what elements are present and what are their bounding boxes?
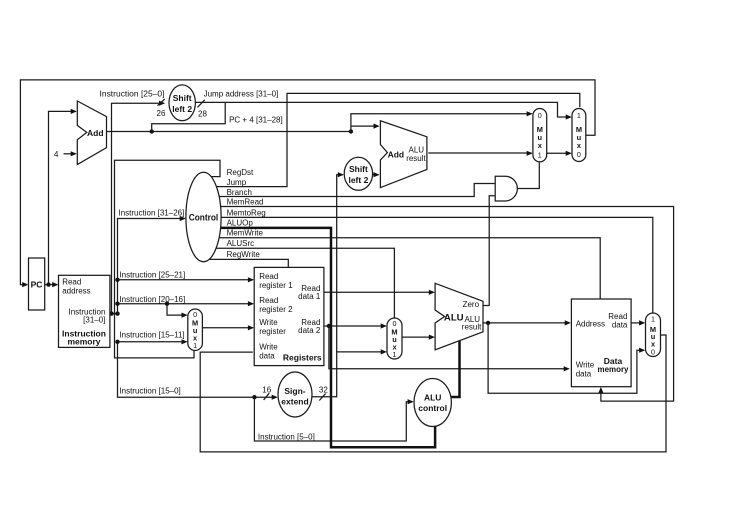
node: ALU result junction — [486, 321, 490, 325]
svg-text:data 1: data 1 — [298, 292, 321, 301]
mux ALUSrc — [387, 318, 402, 359]
svg-text:0: 0 — [393, 319, 397, 328]
wire: jump mux output feedback to PC (top loop) — [20, 80, 595, 285]
svg-text:Instruction [15–0]: Instruction [15–0] — [119, 386, 180, 395]
wire: PC+4 from Add output to branch adder junction — [107, 131, 351, 133]
wire: write-back mux output loop to registers write data — [200, 335, 666, 452]
svg-text:Registers: Registers — [283, 352, 322, 362]
node: Instruction[25-21] tap — [115, 278, 119, 282]
wire: PC+4 up to branch mux 0 input — [351, 114, 532, 132]
svg-text:Instruction [15–11]: Instruction [15–11] — [119, 331, 184, 340]
svg-text:0: 0 — [538, 111, 542, 120]
node: Instruction[20-16] tap — [115, 302, 119, 306]
svg-text:Control: Control — [189, 212, 219, 222]
wire: Instruction[5-0] to ALU control — [254, 397, 412, 441]
wire: Instruction[31-26] riser to Control — [118, 219, 185, 314]
data memory — [571, 299, 631, 387]
wire: Instruction[15-0] to sign extend — [118, 342, 277, 397]
wire: read data 1 to ALU top input — [324, 291, 434, 293]
svg-text:1: 1 — [651, 315, 655, 324]
svg-text:Write: Write — [576, 360, 595, 369]
svg-text:RegWrite: RegWrite — [227, 250, 261, 259]
svg-text:ALUOp: ALUOp — [227, 219, 254, 228]
svg-text:result: result — [462, 323, 482, 332]
svg-text:1: 1 — [538, 150, 542, 159]
wire: PC output to instruction memory read address — [45, 284, 57, 286]
svg-text:[31–0]: [31–0] — [83, 316, 105, 325]
svg-text:Jump: Jump — [227, 178, 247, 187]
svg-text:Shift: Shift — [349, 164, 368, 174]
wire: PC+4 into branch adder top input — [351, 125, 379, 127]
wire: ALU Zero output to AND gate — [483, 196, 495, 306]
svg-text:ALU: ALU — [424, 392, 441, 402]
svg-text:address: address — [62, 287, 90, 296]
svg-text:control: control — [418, 403, 447, 413]
wire: data memory read data to write-back mux 1 input — [631, 322, 644, 324]
svg-text:1: 1 — [393, 350, 397, 359]
svg-text:16: 16 — [262, 386, 271, 395]
wire: ALU source mux output to ALU bottom input — [402, 336, 434, 338]
wire: PC+4 [31-28] riser joining jump address bundle — [152, 102, 226, 131]
svg-text:Instruction [31–26]: Instruction [31–26] — [119, 208, 185, 217]
svg-text:0: 0 — [193, 310, 197, 319]
svg-text:data: data — [259, 352, 275, 361]
svg-text:Read: Read — [259, 296, 278, 305]
svg-text:Jump address [31–0]: Jump address [31–0] — [204, 90, 279, 99]
svg-text:Read: Read — [259, 272, 278, 281]
node: Instruction[15-11] tap — [115, 340, 119, 344]
node: instruction bus junction B — [115, 311, 119, 315]
svg-text:MemtoReg: MemtoReg — [227, 208, 266, 217]
wire: ALU result to data memory address — [483, 322, 570, 324]
wire: Instruction[25-0] riser to shift left 2 — [112, 103, 164, 313]
svg-text:Add: Add — [87, 128, 104, 138]
instruction memory — [59, 275, 110, 347]
svg-text:Read: Read — [62, 277, 81, 286]
svg-text:register 2: register 2 — [259, 305, 293, 314]
svg-text:MemRead: MemRead — [227, 198, 264, 207]
wire: ALU control output to ALU (thick) — [451, 340, 460, 397]
wire: shift left 2 output jump address to jump mux 1 input — [195, 102, 570, 117]
register PC — [29, 258, 45, 310]
svg-text:32: 32 — [319, 386, 328, 395]
wire: RegDst control to RegDst mux select (left loop) — [115, 160, 221, 358]
node: PC+4 junction for jump address — [150, 129, 154, 133]
wire: ALU result bypass to write-back mux 0 input — [488, 323, 644, 393]
svg-text:4: 4 — [54, 150, 59, 159]
svg-text:Instruction [5–0]: Instruction [5–0] — [258, 433, 315, 442]
svg-text:RegDst: RegDst — [227, 168, 254, 177]
svg-text:Write: Write — [259, 343, 278, 352]
control unit oval — [186, 172, 221, 261]
svg-text:Address: Address — [576, 319, 605, 328]
wire: read data 2 to data memory write data — [329, 326, 569, 369]
wire: RegWrite control to registers — [210, 259, 289, 267]
svg-text:result: result — [406, 154, 426, 163]
wire: constant 4 into Add — [64, 153, 76, 155]
svg-text:left 2: left 2 — [172, 104, 192, 114]
mux write-back (MemtoReg) — [646, 313, 661, 357]
svg-text:26: 26 — [157, 109, 166, 118]
wire: ALUSrc control to ALU source mux select — [214, 248, 395, 318]
node: Instruction[15-0] junction for [5-0] — [252, 395, 256, 399]
bit-width slash 32 — [319, 394, 325, 401]
svg-text:extend: extend — [281, 396, 308, 406]
bit-width slash 16 — [264, 393, 270, 400]
wire: read data 2 to ALU source mux 0 input — [324, 325, 386, 327]
svg-text:Instruction [25–0]: Instruction [25–0] — [100, 89, 165, 98]
wire: sign extend output to ALU source mux 1 input — [337, 351, 386, 353]
svg-text:memory: memory — [67, 337, 100, 347]
wire: Instruction[20-16] drop to RegDst mux 0 input — [167, 304, 186, 315]
svg-text:Shift: Shift — [173, 93, 192, 103]
svg-text:PC + 4 [31–28]: PC + 4 [31–28] — [229, 116, 283, 125]
svg-text:MemWrite: MemWrite — [227, 229, 264, 238]
wire: shift left 2 output to branch adder bottom input — [373, 174, 379, 176]
op-amp ALU — [435, 283, 483, 350]
wire: instruction memory output bus — [110, 313, 118, 315]
wire: Instruction[25-21] to read register 1 — [118, 279, 253, 281]
svg-text:Zero: Zero — [463, 300, 480, 309]
node: instruction bus junction A — [109, 311, 113, 315]
svg-text:0: 0 — [577, 150, 581, 159]
svg-text:data: data — [576, 370, 592, 379]
wire: Jump control to jump mux select — [215, 93, 580, 186]
svg-text:ALUSrc: ALUSrc — [227, 239, 255, 248]
svg-text:Branch: Branch — [227, 188, 252, 197]
svg-text:Instruction [20–16]: Instruction [20–16] — [119, 295, 185, 304]
bit-width slash 28 — [198, 100, 205, 108]
wire: RegDst mux output to write register — [202, 327, 252, 329]
wire: branch mux output to jump mux 0 input — [547, 152, 571, 154]
wire: MemRead control loop to data memory bottom — [221, 207, 674, 402]
svg-text:ALU: ALU — [444, 313, 464, 324]
svg-text:Write: Write — [259, 318, 278, 327]
wire: ALUOp control to ALU control unit (2-bit, thick) — [221, 228, 436, 447]
node: PC+4 branch-adder junction — [349, 129, 353, 133]
wire: sign extend output riser to shift left 2 (branch) — [312, 175, 343, 397]
svg-text:28: 28 — [198, 110, 207, 119]
wire: Branch control to AND gate — [219, 184, 495, 197]
wire: MemtoReg control to write-back mux select — [221, 217, 653, 312]
svg-text:data 2: data 2 — [298, 326, 321, 335]
svg-text:1: 1 — [193, 341, 197, 350]
wire: MemWrite control to data memory top — [218, 238, 600, 299]
svg-text:Instruction [25–21]: Instruction [25–21] — [119, 271, 185, 280]
ALU control unit — [414, 379, 451, 427]
wire: Instruction[20-16] to read register 2 — [118, 303, 253, 305]
svg-text:data: data — [612, 320, 628, 329]
AND gate (branch) — [495, 176, 517, 201]
node: read data 2 junction — [327, 324, 331, 328]
mux RegDst — [188, 309, 203, 351]
mux branch (PCSrc) — [533, 109, 547, 162]
adder Add (branch target) — [380, 121, 427, 188]
shift left 2 unit (jump) — [169, 85, 195, 121]
svg-text:register 1: register 1 — [259, 281, 293, 290]
sign extend unit — [278, 372, 312, 417]
svg-text:1: 1 — [577, 111, 581, 120]
mux jump — [572, 109, 586, 162]
wire: branch adder output to branch mux 1 input — [428, 152, 531, 154]
registers file — [254, 267, 324, 365]
svg-text:0: 0 — [651, 348, 655, 357]
svg-text:Sign-: Sign- — [284, 386, 305, 396]
wire: PC to Add (PC+4 adder) top input — [49, 111, 76, 284]
node: Instruction[20-16] mux tap — [165, 302, 169, 306]
wire: AND gate output to branch mux select — [518, 163, 540, 189]
adder Add (PC+4) — [77, 101, 106, 165]
wire: Instruction[15-11] to RegDst mux 1 input — [118, 341, 187, 343]
bit-width slash 26 — [158, 99, 165, 106]
node: PC output junction — [46, 282, 50, 286]
svg-text:register: register — [259, 327, 286, 336]
svg-text:PC: PC — [31, 280, 43, 290]
svg-text:memory: memory — [598, 364, 629, 374]
shift left 2 unit (branch) — [344, 157, 372, 190]
svg-text:Add: Add — [388, 149, 405, 159]
svg-text:left 2: left 2 — [348, 175, 368, 185]
